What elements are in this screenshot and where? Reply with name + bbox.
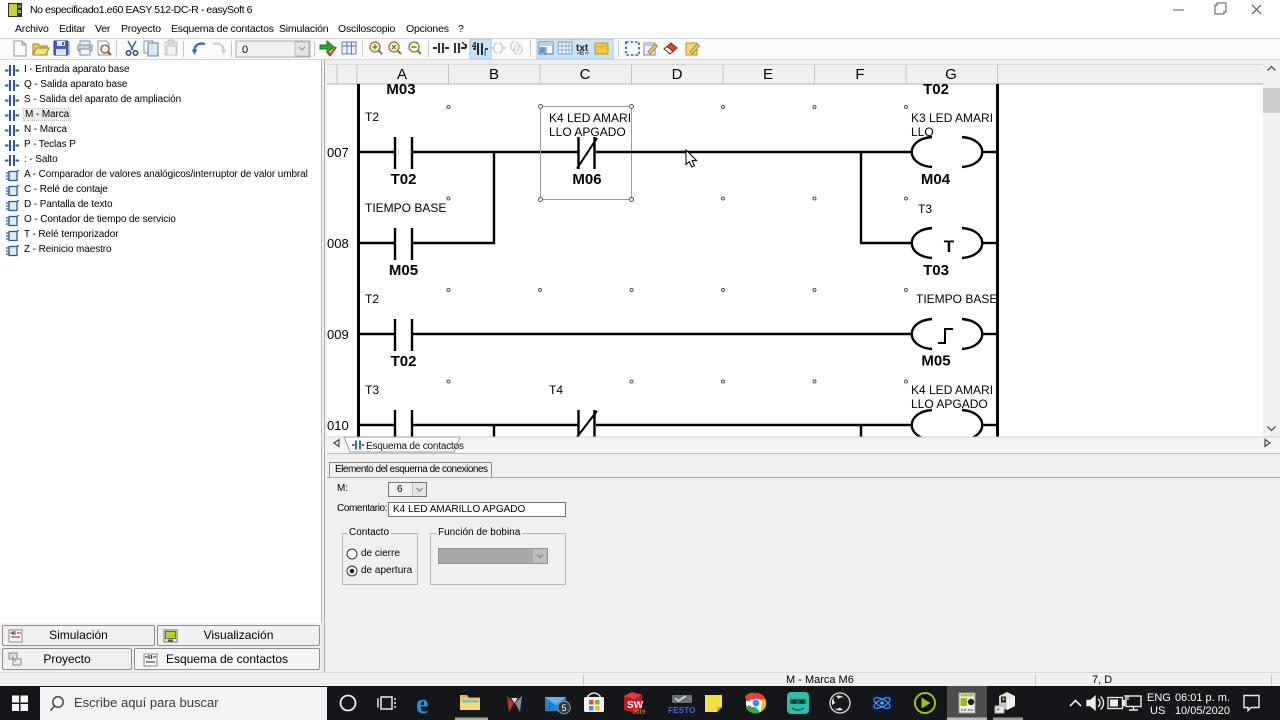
svg-text:txt: txt xyxy=(576,43,589,54)
menu bar xyxy=(0,20,1280,38)
comment K3 LED AMARILLO xyxy=(911,111,993,139)
coil M05 (edge triggered) xyxy=(912,319,983,349)
branch wire F column rung 007 to 008 xyxy=(860,151,862,244)
action center xyxy=(1244,696,1259,711)
green play xyxy=(915,693,935,713)
comment K4 LED AMARILLO APGADO rung 010 xyxy=(911,383,993,411)
svg-text:T4: T4 xyxy=(549,383,563,397)
svg-text:F: F xyxy=(855,66,864,83)
branch stub B rung 010 xyxy=(493,425,495,437)
festo xyxy=(668,695,696,715)
grid dots xyxy=(447,106,908,384)
svg-text:Esquema de contactos: Esquema de contactos xyxy=(366,441,464,452)
comment K4 LED AMARILLO APGADO xyxy=(549,111,631,139)
svg-text:M03: M03 xyxy=(386,81,415,98)
solidworks xyxy=(624,692,645,716)
svg-text:TIEMPO BASE: TIEMPO BASE xyxy=(916,292,997,306)
svg-text:K4 LED AMARI: K4 LED AMARI xyxy=(911,383,993,397)
svg-text:T: T xyxy=(944,237,955,256)
battery xyxy=(1108,698,1125,709)
cortana xyxy=(341,696,356,711)
explorer xyxy=(460,695,480,710)
wire rung 009 contact to coil M05 xyxy=(412,333,913,335)
svg-text:D: D xyxy=(672,66,683,83)
svg-text:T3: T3 xyxy=(365,383,379,397)
svg-text:007: 007 xyxy=(327,145,349,160)
svg-text:K3 LED AMARI: K3 LED AMARI xyxy=(911,111,993,125)
contact T02 (NO) rung 007 xyxy=(395,137,412,169)
svg-text:LLO APGADO: LLO APGADO xyxy=(549,125,626,139)
teal app xyxy=(787,692,809,714)
wire rung 010 rail to contact T3 xyxy=(358,424,396,426)
svg-text:06:01 p. m.: 06:01 p. m. xyxy=(1175,692,1230,704)
wire coil M04 to right rail xyxy=(982,151,998,153)
branch wire B column rung 007 to 008 xyxy=(493,151,495,244)
svg-text:4: 4 xyxy=(472,41,477,50)
tray chevron xyxy=(1070,701,1081,707)
branch stub F rung 010 xyxy=(860,425,862,437)
mail xyxy=(545,697,566,711)
svg-text:008: 008 xyxy=(327,236,349,251)
svg-text:K4 LED AMARI: K4 LED AMARI xyxy=(549,111,631,125)
contact M05 (NO) xyxy=(395,228,412,260)
wire rung 008 contact M05 to branch xyxy=(412,242,495,244)
obs xyxy=(830,693,850,713)
svg-text:T03: T03 xyxy=(923,262,949,279)
bottom tab row xyxy=(327,437,1280,453)
svg-text:LLO: LLO xyxy=(911,125,934,139)
machine app xyxy=(995,692,1015,713)
left power rail xyxy=(357,84,360,437)
toolbar xyxy=(0,38,1280,60)
svg-text:B: B xyxy=(489,66,499,83)
contact T3 (NO) rung 010 xyxy=(395,410,412,437)
contact T4 (NC) rung 010 xyxy=(577,410,597,437)
svg-text:e: e xyxy=(416,689,428,720)
svg-text:2019: 2019 xyxy=(633,710,645,716)
svg-text:FESTO: FESTO xyxy=(668,706,696,715)
svg-text:M06: M06 xyxy=(572,171,601,188)
properties panel xyxy=(327,453,1280,672)
svg-text:M04: M04 xyxy=(921,171,951,188)
store xyxy=(584,693,604,712)
svg-text:5: 5 xyxy=(561,703,566,713)
selection box around M06 xyxy=(541,107,632,200)
svg-text:C: C xyxy=(580,66,591,83)
coil T03 (timer) xyxy=(912,228,983,258)
svg-text:T02: T02 xyxy=(391,353,417,370)
mouse cursor xyxy=(686,150,697,167)
svg-text:T02: T02 xyxy=(391,171,417,188)
wire rung 007 segment rail to contact T02 xyxy=(358,151,396,153)
svg-text:T02: T02 xyxy=(923,81,949,98)
vertical splitter line xyxy=(324,60,325,672)
Función de bobina group xyxy=(430,533,566,585)
bottom nav buttons xyxy=(2,625,155,646)
svg-text:ENG: ENG xyxy=(1147,692,1171,704)
predator xyxy=(504,693,525,714)
svg-text:T3: T3 xyxy=(918,202,932,216)
wire coil T03 to right rail xyxy=(982,242,998,244)
svg-text:009: 009 xyxy=(327,327,349,342)
wire rung 010 coil to right rail xyxy=(982,424,998,426)
svg-text:0: 0 xyxy=(242,44,248,56)
wire rung 010 contact T3 to contact T4 xyxy=(412,424,578,426)
svg-text:M05: M05 xyxy=(389,262,418,279)
wire rung 010 contact T4 to coil xyxy=(596,424,913,426)
svg-text:I: I xyxy=(484,49,486,58)
coil M04 xyxy=(912,137,983,167)
wire rung 008 rail to contact M05 xyxy=(358,242,396,244)
svg-text:E: E xyxy=(763,66,773,83)
easySoft active app xyxy=(947,686,987,720)
coil rung 010 (cut off) xyxy=(912,410,983,440)
svg-text:M05: M05 xyxy=(921,353,950,370)
wire rung 008 branch F to coil T03 xyxy=(860,242,913,244)
svg-text:T2: T2 xyxy=(365,110,379,124)
svg-text:010: 010 xyxy=(327,418,349,433)
task view xyxy=(378,697,395,709)
svg-text:10/05/2020: 10/05/2020 xyxy=(1175,705,1230,717)
svg-text:TIEMPO BASE: TIEMPO BASE xyxy=(365,201,446,215)
contact M06 (NC, selected) xyxy=(577,137,597,169)
vertical scrollbar xyxy=(1263,60,1280,437)
wire rung 007 contact M06 to coil M04 xyxy=(596,151,913,153)
speaker xyxy=(1087,697,1104,710)
wire rung 007 contact T02 to contact M06 xyxy=(412,151,578,153)
svg-text:T2: T2 xyxy=(365,292,379,306)
ladder view xyxy=(327,60,1280,453)
wire rung 009 rail to contact T02 xyxy=(358,333,396,335)
taskbar xyxy=(0,686,1280,720)
chrome xyxy=(745,693,766,714)
wire coil M05 to right rail xyxy=(982,333,998,335)
Contacto group xyxy=(342,533,418,585)
atom app xyxy=(871,692,893,714)
contact T02 (NO) rung 009 xyxy=(395,319,412,351)
window title bar xyxy=(0,0,1280,20)
network xyxy=(1124,696,1141,710)
status bar xyxy=(0,672,1280,686)
right power rail xyxy=(996,84,999,437)
sticky notes xyxy=(705,695,722,712)
svg-text:US: US xyxy=(1150,705,1165,717)
left tree panel xyxy=(0,60,322,623)
svg-text:LLO APGADO: LLO APGADO xyxy=(911,397,988,411)
